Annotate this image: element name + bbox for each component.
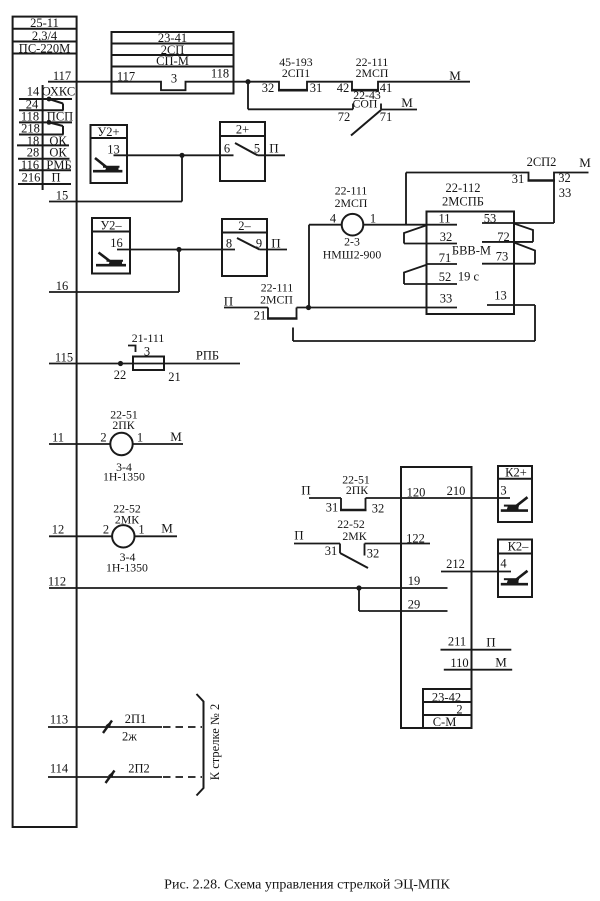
svg-text:М: М xyxy=(449,68,461,83)
pin 53 xyxy=(482,211,554,225)
svg-text:К стрелке № 2: К стрелке № 2 xyxy=(208,704,222,780)
svg-text:М: М xyxy=(495,654,507,669)
svg-text:М: М xyxy=(161,521,173,536)
pin 32 xyxy=(404,230,457,244)
svg-text:22: 22 xyxy=(114,368,127,382)
svg-text:19 с: 19 с xyxy=(458,269,480,283)
svg-text:8: 8 xyxy=(226,237,232,251)
svg-text:2МСП: 2МСП xyxy=(356,66,389,80)
wire У2− pin16 to contact 2− xyxy=(117,249,235,251)
pin 11 wire and relay coil 22-51 2ПК xyxy=(49,407,183,483)
wire 29 branch xyxy=(358,588,360,611)
svg-text:33: 33 xyxy=(559,186,572,200)
svg-text:216: 216 xyxy=(22,171,41,185)
row 218 xyxy=(19,122,64,136)
contact 22-43 СОП (open, pins 72-71) xyxy=(338,88,417,136)
svg-text:2+: 2+ xyxy=(236,123,249,137)
svg-text:22-112: 22-112 xyxy=(446,181,481,195)
contact 45-193 2СП1 (closed, pins 32-31) xyxy=(262,55,323,95)
svg-text:4: 4 xyxy=(500,556,507,570)
driver box К2+ xyxy=(498,466,532,522)
svg-text:К2–: К2– xyxy=(508,540,530,554)
svg-text:21: 21 xyxy=(168,370,181,384)
svg-text:32: 32 xyxy=(440,230,453,244)
plug flag left 11/32 xyxy=(404,225,427,243)
svg-text:РПБ: РПБ xyxy=(196,348,219,362)
node junction at coil drop xyxy=(306,305,311,310)
wire 212 to К2− pin 4 xyxy=(441,571,511,573)
svg-text:31: 31 xyxy=(326,501,339,515)
svg-text:2МСП: 2МСП xyxy=(335,196,368,210)
svg-text:112: 112 xyxy=(48,574,66,588)
plug flag left 71/52 xyxy=(404,265,427,284)
wire 122 into МПК box xyxy=(365,543,431,545)
svg-text:71: 71 xyxy=(439,251,452,265)
wire back-contact elbow to bottom loop xyxy=(292,328,294,342)
wire 110 М xyxy=(444,654,512,670)
wire riser to 2СП2 xyxy=(405,173,407,225)
svg-text:К2+: К2+ xyxy=(505,466,527,480)
relay driver box У2+ xyxy=(91,125,128,183)
node on wire 16 xyxy=(176,247,181,252)
svg-text:П: П xyxy=(301,483,310,498)
contact 2СП2 (closed, pins 31-32) top right xyxy=(406,155,589,186)
svg-text:16: 16 xyxy=(110,236,123,250)
svg-text:2: 2 xyxy=(456,703,462,717)
row 116 РМБ xyxy=(19,158,72,172)
svg-text:П: П xyxy=(271,236,280,251)
svg-text:4: 4 xyxy=(330,211,337,225)
contact 22-111 2МСП pin21 (П branch) xyxy=(224,280,298,322)
svg-text:2СП1: 2СП1 xyxy=(282,66,310,80)
svg-text:У2+: У2+ xyxy=(97,125,119,139)
svg-text:П: П xyxy=(269,141,278,156)
svg-text:115: 115 xyxy=(55,350,73,364)
svg-text:42: 42 xyxy=(337,81,350,95)
wire down to pin 15 xyxy=(181,155,183,201)
row 24 xyxy=(19,98,64,112)
pin 113 wire 2П1 xyxy=(48,712,202,744)
svg-text:М: М xyxy=(579,155,591,170)
svg-text:2: 2 xyxy=(103,522,109,536)
svg-text:31: 31 xyxy=(512,172,525,186)
driver box К2− xyxy=(498,540,532,598)
svg-text:41: 41 xyxy=(380,81,393,95)
svg-text:М: М xyxy=(170,429,182,444)
svg-text:32: 32 xyxy=(262,81,275,95)
svg-text:2ПК: 2ПК xyxy=(346,483,368,497)
svg-text:2МСПБ: 2МСПБ xyxy=(442,195,484,209)
contact 22-111 2МСП (closed, pins 42-41) xyxy=(337,55,393,95)
svg-text:2МСП: 2МСП xyxy=(260,292,293,306)
wire coil pin1 right into БВВ pin 11 xyxy=(363,224,457,226)
svg-text:13: 13 xyxy=(494,288,507,302)
svg-text:3: 3 xyxy=(171,71,177,85)
svg-text:1Н-1350: 1Н-1350 xyxy=(106,560,148,574)
fuse-unit box 23-41 2СП СП-М xyxy=(112,31,234,93)
node junction on wire 117 xyxy=(245,79,250,84)
svg-text:1: 1 xyxy=(137,430,143,444)
pin 114 wire 2П2 xyxy=(48,761,202,783)
svg-text:3: 3 xyxy=(500,483,506,497)
svg-text:19: 19 xyxy=(408,574,421,588)
svg-text:2-3: 2-3 xyxy=(344,234,360,248)
block БВВ-М box xyxy=(427,212,515,315)
wire 33 from 2СП2 down to pin 53 xyxy=(553,181,555,224)
row 118 ПСП xyxy=(19,110,73,135)
wire coil pin4 left and down xyxy=(309,224,342,226)
svg-text:33: 33 xyxy=(440,291,453,305)
svg-text:31: 31 xyxy=(310,81,323,95)
svg-text:114: 114 xyxy=(50,761,69,775)
svg-text:71: 71 xyxy=(380,110,393,124)
cable bracket to стрелка 2 xyxy=(197,694,204,796)
svg-text:32: 32 xyxy=(558,171,571,185)
plug flag right 53/72 xyxy=(514,224,533,242)
relay driver box У2− xyxy=(92,218,130,274)
row 216 П xyxy=(18,171,71,185)
relay coil 22-111 2МСП (НМШ2-900) xyxy=(323,183,382,261)
wire down to pin 16 xyxy=(178,250,180,293)
svg-text:ПС-220М: ПС-220М xyxy=(19,41,70,55)
svg-text:6: 6 xyxy=(224,142,230,156)
svg-text:11: 11 xyxy=(52,430,64,444)
svg-text:31: 31 xyxy=(325,544,338,558)
svg-text:СП-М: СП-М xyxy=(156,54,189,68)
svg-text:117: 117 xyxy=(117,70,135,84)
svg-text:14: 14 xyxy=(27,85,40,99)
svg-text:211: 211 xyxy=(448,634,466,648)
svg-text:15: 15 xyxy=(56,188,69,202)
svg-text:2СП2: 2СП2 xyxy=(527,155,557,169)
svg-text:П: П xyxy=(51,171,60,185)
row 28 ОК xyxy=(18,146,70,160)
svg-text:21-111: 21-111 xyxy=(132,331,165,345)
svg-text:СОП: СОП xyxy=(353,96,378,110)
svg-text:2ж: 2ж xyxy=(122,730,137,744)
wire 117 with plug notch through СП-М box xyxy=(48,82,470,91)
wire 211 П xyxy=(441,634,512,649)
plug flag right 72/73 xyxy=(514,243,535,264)
svg-text:118: 118 xyxy=(211,67,229,81)
svg-text:16: 16 xyxy=(56,279,69,293)
svg-text:Рис. 2.28. Схема управления ст: Рис. 2.28. Схема управления стрелкой ЭЦ-… xyxy=(164,878,450,893)
fuse 21-111 3 xyxy=(128,331,181,384)
svg-text:113: 113 xyxy=(50,712,68,726)
node on wire 13 xyxy=(179,153,184,158)
svg-text:С-М: С-М xyxy=(433,715,457,729)
svg-text:М: М xyxy=(401,95,413,110)
svg-text:32: 32 xyxy=(367,547,380,561)
svg-text:120: 120 xyxy=(407,486,426,500)
svg-text:32: 32 xyxy=(372,502,385,516)
svg-text:НМШ2-900: НМШ2-900 xyxy=(323,247,382,261)
svg-text:2П2: 2П2 xyxy=(128,762,150,776)
box 23-42 2 С-М xyxy=(423,689,472,729)
svg-text:БВВ-М: БВВ-М xyxy=(452,243,491,257)
svg-text:1: 1 xyxy=(138,522,144,536)
svg-text:11: 11 xyxy=(438,211,450,225)
svg-text:29: 29 xyxy=(408,598,421,612)
pin 72 xyxy=(482,230,533,244)
МПК interface box xyxy=(401,467,472,728)
pin rows inside ПС-220М: row 14 ОХКС xyxy=(19,85,75,111)
svg-text:2–: 2– xyxy=(238,219,251,233)
svg-text:1Н-1350: 1Н-1350 xyxy=(103,469,145,483)
row 18 ОК xyxy=(17,134,69,148)
svg-text:У2–: У2– xyxy=(100,219,122,233)
svg-text:П: П xyxy=(224,293,233,308)
svg-text:2МК: 2МК xyxy=(115,512,139,526)
svg-text:122: 122 xyxy=(406,532,425,546)
svg-text:ОХКС: ОХКС xyxy=(42,85,75,99)
node on 112 xyxy=(356,585,361,590)
pin 13 xyxy=(487,288,535,305)
svg-text:72: 72 xyxy=(338,110,351,124)
node 22 xyxy=(118,361,123,366)
contact box 2− (pins 8-9) xyxy=(222,219,287,276)
pin column separator xyxy=(42,85,44,190)
svg-text:2: 2 xyxy=(100,430,106,444)
svg-text:52: 52 xyxy=(439,270,452,284)
svg-text:2П1: 2П1 xyxy=(125,712,147,726)
svg-text:12: 12 xyxy=(52,522,65,536)
svg-text:2ПК: 2ПК xyxy=(112,418,134,432)
svg-text:212: 212 xyxy=(446,557,465,571)
wire from contact to БВВ pin 33 xyxy=(297,307,458,309)
power unit ПС-220М 25-11 outer box xyxy=(13,16,77,827)
contact box 2+ (pins 6-5) xyxy=(220,122,285,181)
wire branch down from node to СОП contact xyxy=(247,82,249,110)
pin 73 xyxy=(482,249,535,263)
pin 52 xyxy=(404,270,457,284)
svg-text:110: 110 xyxy=(450,656,468,670)
wire 120/210 through МПК box to К2+ pin 3 xyxy=(366,497,511,499)
contact 22-51 2ПК (closed, 31-32) xyxy=(309,472,384,515)
svg-text:П: П xyxy=(294,528,303,543)
svg-text:П: П xyxy=(486,634,495,649)
svg-text:21: 21 xyxy=(254,309,267,323)
svg-text:210: 210 xyxy=(447,484,466,498)
contact 22-52 2МК (open, 31-32) xyxy=(294,517,379,568)
svg-text:73: 73 xyxy=(496,249,509,263)
wire У2+ pin13 to contact 2+ xyxy=(114,154,234,156)
svg-text:2МК: 2МК xyxy=(342,529,366,543)
pin 12 wire and relay coil 22-52 2МК xyxy=(49,501,177,574)
svg-text:1: 1 xyxy=(370,211,376,225)
pin 71 xyxy=(427,251,458,265)
